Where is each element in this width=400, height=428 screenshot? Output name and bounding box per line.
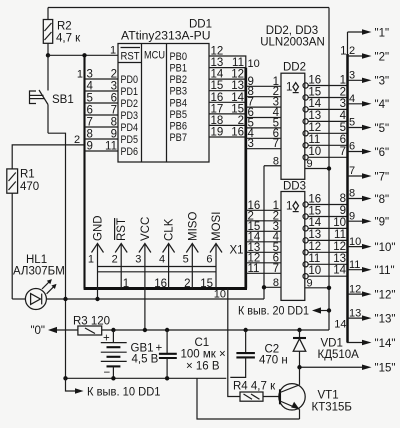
wire PB1 pin13 xyxy=(209,67,246,69)
wire plus supply row y=330 xyxy=(102,329,329,331)
left group bus of DD1 block xyxy=(83,55,85,288)
svg-text:10: 10 xyxy=(308,265,321,277)
svg-text:10: 10 xyxy=(308,146,321,158)
svg-text:6: 6 xyxy=(111,93,117,105)
svg-text:11: 11 xyxy=(334,229,346,241)
wire PB3 pin15 xyxy=(209,90,246,92)
wire VT1 emitter return to minus rail xyxy=(197,378,300,419)
svg-text:11: 11 xyxy=(248,263,260,275)
svg-text:C1: C1 xyxy=(195,337,210,349)
X1 pin 2 RST xyxy=(112,218,129,289)
svg-text:3: 3 xyxy=(135,254,141,266)
right output cable group line xyxy=(347,32,349,55)
svg-text:470: 470 xyxy=(20,181,39,193)
svg-text:2: 2 xyxy=(349,45,355,57)
wire PD6 pin11 xyxy=(85,150,119,152)
svg-text:13: 13 xyxy=(349,307,361,319)
X1 pin 4 CLK xyxy=(159,218,176,288)
node SB1 vertical joins minus rail xyxy=(63,376,67,380)
svg-text:"3": "3" xyxy=(375,76,390,88)
svg-text:"8": "8" xyxy=(375,194,390,206)
svg-text:6: 6 xyxy=(87,105,93,117)
svg-text:14: 14 xyxy=(333,265,346,277)
wire 2: R1 top to left bus xyxy=(12,145,84,169)
output stub 10 xyxy=(348,236,396,254)
cable entry labels wires 8-14 xyxy=(333,193,346,277)
wire to pin 10 DD1 with arrow xyxy=(66,378,161,398)
svg-text:× 16 В: × 16 В xyxy=(186,360,220,372)
svg-text:GND: GND xyxy=(93,215,105,241)
svg-text:100 мк ×: 100 мк × xyxy=(181,349,226,361)
svg-text:1: 1 xyxy=(286,82,292,94)
svg-text:PB7: PB7 xyxy=(170,132,188,144)
svg-text:VT1: VT1 xyxy=(318,390,339,402)
svg-text:PB5: PB5 xyxy=(170,109,188,121)
svg-text:16: 16 xyxy=(308,74,321,86)
svg-text:3: 3 xyxy=(111,81,117,93)
svg-text:13: 13 xyxy=(308,229,321,241)
svg-text:"14": "14" xyxy=(375,338,396,350)
wire X1 link line A xyxy=(98,266,217,268)
svg-text:VCC: VCC xyxy=(140,217,152,241)
wire SB1 to ground rails xyxy=(48,133,66,378)
svg-text:"0": "0" xyxy=(30,325,45,337)
X1 pin 3 VCC xyxy=(135,217,152,330)
svg-text:8: 8 xyxy=(340,193,346,205)
svg-text:6: 6 xyxy=(206,254,212,266)
svg-text:DD3: DD3 xyxy=(283,181,306,193)
svg-text:4,7 к: 4,7 к xyxy=(56,33,81,45)
wire RST net to DD1 pin 1 xyxy=(48,54,118,56)
svg-text:"13": "13" xyxy=(375,313,396,325)
svg-text:"10": "10" xyxy=(375,242,396,254)
svg-text:12: 12 xyxy=(308,241,321,253)
svg-text:2: 2 xyxy=(340,86,346,98)
svg-text:10: 10 xyxy=(333,217,346,229)
ground minus rail xyxy=(66,377,227,379)
svg-text:VD1: VD1 xyxy=(321,338,343,350)
svg-text:14: 14 xyxy=(308,98,321,110)
wire PB2 pin14 xyxy=(209,78,246,80)
X1 pin 6 MOSI xyxy=(206,212,223,289)
wire ULN ground drop to rail xyxy=(263,166,265,299)
node VD1 cathode / collector / wire 15 xyxy=(297,365,301,369)
diode VD1 xyxy=(293,330,359,367)
DD2 output pins 16-10 with bubbles xyxy=(303,74,348,160)
labels PB side wire numbers entering bus xyxy=(231,57,244,138)
svg-text:5: 5 xyxy=(183,254,189,266)
wire "0" output with arrow xyxy=(30,325,77,337)
svg-text:4: 4 xyxy=(87,81,94,93)
svg-text:14: 14 xyxy=(308,217,321,229)
svg-text:К выв. 10 DD1: К выв. 10 DD1 xyxy=(87,387,161,399)
node junction R2/SB1/RST xyxy=(46,53,50,57)
svg-text:"12": "12" xyxy=(375,289,396,301)
svg-text:12: 12 xyxy=(349,283,361,295)
svg-text:6: 6 xyxy=(349,141,355,153)
svg-text:12: 12 xyxy=(231,69,244,81)
node C2 top xyxy=(243,328,247,332)
svg-text:8: 8 xyxy=(273,155,279,167)
svg-text:3: 3 xyxy=(340,98,346,110)
output stub 9 xyxy=(348,210,390,228)
svg-text:3: 3 xyxy=(248,138,254,150)
svg-text:ULN2003AN: ULN2003AN xyxy=(260,37,325,49)
battery GB1 xyxy=(101,330,159,379)
svg-text:SB1: SB1 xyxy=(52,94,74,106)
svg-text:PD1: PD1 xyxy=(121,86,139,98)
output stub 5 xyxy=(348,117,390,135)
output stub 11 xyxy=(348,259,395,277)
svg-text:"9": "9" xyxy=(375,217,390,229)
resistor R4 xyxy=(233,381,280,402)
wire PD5 pin9 xyxy=(85,138,119,140)
svg-text:18: 18 xyxy=(211,115,224,127)
svg-text:PD6: PD6 xyxy=(121,146,139,158)
svg-text:14: 14 xyxy=(211,69,224,81)
svg-text:ATtiny2313A-PU: ATtiny2313A-PU xyxy=(121,31,211,43)
svg-text:2: 2 xyxy=(111,69,117,81)
svg-text:9: 9 xyxy=(111,129,117,141)
svg-text:PD3: PD3 xyxy=(121,110,139,122)
wire PB6 pin18 xyxy=(209,124,246,126)
DD3 input wires from bus with pin numbers xyxy=(246,200,281,275)
svg-text:DD2: DD2 xyxy=(283,62,306,74)
wire LED to ground rail xyxy=(46,298,264,300)
wire to pin 20 DD1 with arrow xyxy=(238,306,331,318)
output stub 4 xyxy=(348,93,390,111)
microcontroller DD1 ATtiny2313A-PU xyxy=(118,19,212,163)
svg-text:КД510А: КД510А xyxy=(318,349,360,361)
DD3 output pins 16-10 with bubbles xyxy=(303,193,348,279)
svg-text:15: 15 xyxy=(231,103,244,115)
node GB1 plus xyxy=(111,328,115,332)
svg-text:11: 11 xyxy=(349,259,360,271)
svg-text:8: 8 xyxy=(87,129,93,141)
svg-text:5: 5 xyxy=(87,93,93,105)
svg-text:5: 5 xyxy=(349,117,355,129)
svg-text:9: 9 xyxy=(307,158,313,170)
svg-text:4: 4 xyxy=(159,254,165,266)
svg-text:DD1: DD1 xyxy=(189,19,212,31)
output stub 8 xyxy=(348,188,390,206)
wire PB5 pin17 xyxy=(209,113,246,115)
svg-text:7: 7 xyxy=(111,105,117,117)
svg-text:1: 1 xyxy=(88,254,94,266)
node VD1 top xyxy=(297,328,301,332)
svg-text:7: 7 xyxy=(273,263,279,275)
svg-text:16: 16 xyxy=(231,127,244,139)
pushbutton SB1 xyxy=(30,55,74,133)
svg-text:2: 2 xyxy=(112,254,118,266)
svg-text:7: 7 xyxy=(349,165,355,177)
driver DD3 ULN2003AN xyxy=(281,181,306,301)
svg-text:"2": "2" xyxy=(375,51,390,63)
svg-text:1: 1 xyxy=(340,46,346,58)
svg-text:PB2: PB2 xyxy=(170,74,188,86)
svg-text:PB3: PB3 xyxy=(170,86,188,98)
svg-text:DD2, DD3: DD2, DD3 xyxy=(266,25,318,37)
svg-text:11: 11 xyxy=(105,141,117,153)
driver DD2 ULN2003AN xyxy=(281,62,306,180)
svg-text:19: 19 xyxy=(211,127,224,139)
svg-text:1: 1 xyxy=(340,74,346,86)
DD2 pin 9 common wire to VCC line xyxy=(305,158,331,171)
resistor R2 xyxy=(43,8,81,56)
svg-text:R1: R1 xyxy=(20,169,35,181)
LED HL1 xyxy=(12,254,65,310)
svg-text:MISO: MISO xyxy=(187,212,199,241)
svg-text:3: 3 xyxy=(349,70,355,82)
svg-text:11: 11 xyxy=(308,134,320,146)
X1 pin 5 MISO xyxy=(183,212,200,289)
labels X1 wire numbers into bus xyxy=(123,278,213,290)
svg-text:10: 10 xyxy=(248,58,260,70)
output stub 3 xyxy=(348,70,390,88)
labels PB side pin numbers 12-19 xyxy=(211,46,224,139)
svg-text:15: 15 xyxy=(308,205,321,217)
svg-text:10: 10 xyxy=(214,289,226,301)
svg-text:9: 9 xyxy=(349,210,355,222)
svg-text:4,5 В: 4,5 В xyxy=(132,354,159,366)
svg-text:"4": "4" xyxy=(375,99,390,111)
svg-text:RST: RST xyxy=(121,51,140,63)
cable entry labels wires 1-7 xyxy=(340,46,347,159)
node C1 top xyxy=(165,328,169,332)
svg-text:MCU: MCU xyxy=(144,50,165,62)
svg-text:CLK: CLK xyxy=(164,218,176,241)
svg-text:PB0: PB0 xyxy=(170,51,188,63)
svg-text:PD0: PD0 xyxy=(121,74,139,86)
svg-text:11: 11 xyxy=(308,253,320,265)
svg-text:+: + xyxy=(156,343,163,355)
svg-text:R2: R2 xyxy=(57,21,72,33)
node GB1 minus xyxy=(111,376,115,380)
DD2 pin 8 ground wire xyxy=(264,155,281,167)
node VCC drop joins row xyxy=(143,328,147,332)
svg-text:HL1: HL1 xyxy=(26,254,47,266)
svg-text:12: 12 xyxy=(211,46,224,58)
svg-text:15: 15 xyxy=(211,80,224,92)
wire PB7 pin19 xyxy=(209,136,246,138)
svg-text:15: 15 xyxy=(308,86,321,98)
svg-text:PB6: PB6 xyxy=(170,120,188,132)
capacitor C2 xyxy=(230,330,287,377)
svg-text:1: 1 xyxy=(110,45,116,57)
wire PD0 pin2 xyxy=(85,78,119,80)
svg-text:"1": "1" xyxy=(375,27,390,39)
svg-text:"6": "6" xyxy=(375,147,390,159)
svg-text:7: 7 xyxy=(340,146,346,158)
svg-text:X1: X1 xyxy=(230,245,244,257)
wire VCC vertical line x=329 xyxy=(328,8,330,331)
svg-text:13: 13 xyxy=(308,110,321,122)
svg-text:PB1: PB1 xyxy=(170,63,188,75)
wire 10 from PB0 pin 12 over bus corner xyxy=(209,56,246,68)
svg-text:8: 8 xyxy=(273,277,279,289)
svg-text:11: 11 xyxy=(232,57,244,69)
svg-text:9: 9 xyxy=(307,277,313,289)
svg-text:16: 16 xyxy=(308,193,321,205)
wire top supply rail from R2 to VCC line xyxy=(48,7,329,9)
wire PB4 pin16 xyxy=(209,101,246,103)
labels PD side wire numbers 3-9 xyxy=(87,69,94,153)
wire PD4 pin8 xyxy=(85,126,119,128)
svg-text:16: 16 xyxy=(154,278,167,290)
svg-text:1: 1 xyxy=(286,201,292,213)
DD3 pin 8 ground wire xyxy=(262,277,281,290)
svg-text:4: 4 xyxy=(340,110,347,122)
svg-text:13: 13 xyxy=(231,80,244,92)
svg-text:PD4: PD4 xyxy=(121,122,139,134)
DD3 pin 9 common wire to VCC line xyxy=(305,277,331,290)
svg-text:470 н: 470 н xyxy=(259,355,288,367)
svg-text:10: 10 xyxy=(349,236,361,248)
svg-text:2: 2 xyxy=(184,278,190,290)
X1 pin 1 GND xyxy=(88,215,105,299)
svg-text:АЛ307БМ: АЛ307БМ xyxy=(13,266,65,278)
bottom edge group bus of DD1 block xyxy=(84,287,247,290)
svg-text:PD5: PD5 xyxy=(121,134,139,146)
wire 10 drop to R4 xyxy=(228,289,240,397)
svg-text:9: 9 xyxy=(87,141,93,153)
svg-text:3: 3 xyxy=(87,69,93,81)
svg-text:R4 4,7 к: R4 4,7 к xyxy=(233,381,276,393)
right edge group bus of DD1 block xyxy=(244,68,247,289)
output stub 7 xyxy=(348,165,390,183)
svg-text:16: 16 xyxy=(211,92,224,104)
resistor R1 xyxy=(7,169,39,300)
svg-text:PB4: PB4 xyxy=(170,97,188,109)
wire PD3 pin7 xyxy=(85,114,119,116)
svg-text:RST: RST xyxy=(116,218,128,241)
svg-text:1: 1 xyxy=(123,278,129,290)
svg-text:5: 5 xyxy=(340,122,346,134)
wire PD2 pin6 xyxy=(85,102,119,104)
svg-text:MOSI: MOSI xyxy=(211,212,223,241)
output stub 6 xyxy=(348,141,390,159)
svg-text:17: 17 xyxy=(211,103,224,115)
svg-text:−: − xyxy=(104,367,111,379)
node SB1 vertical joins ground rail xyxy=(63,297,67,301)
wire X1 link line B xyxy=(98,271,217,273)
svg-text:К выв. 20 DD1: К выв. 20 DD1 xyxy=(238,306,309,318)
svg-text:PD2: PD2 xyxy=(121,98,139,110)
node C1 minus xyxy=(165,376,169,380)
svg-text:14: 14 xyxy=(334,319,346,331)
node wire1 enters left bus xyxy=(82,53,86,57)
svg-text:4: 4 xyxy=(349,93,355,105)
svg-text:6: 6 xyxy=(340,134,346,146)
svg-text:1: 1 xyxy=(77,69,83,81)
svg-text:"15": "15" xyxy=(375,363,396,375)
output stub 1 xyxy=(348,27,390,39)
svg-text:2: 2 xyxy=(74,134,80,146)
svg-text:7: 7 xyxy=(273,138,279,150)
output stub 13 xyxy=(348,307,396,325)
svg-text:"5": "5" xyxy=(375,123,390,135)
svg-text:15: 15 xyxy=(200,278,213,290)
svg-text:12: 12 xyxy=(308,122,321,134)
svg-text:"7": "7" xyxy=(375,171,390,183)
connector X1 programming header xyxy=(88,212,244,330)
resistor R3 xyxy=(73,316,110,336)
svg-text:14: 14 xyxy=(231,92,244,104)
svg-text:8: 8 xyxy=(349,188,355,200)
capacitor C1 electrolytic xyxy=(156,330,226,378)
svg-text:13: 13 xyxy=(211,57,224,69)
svg-text:2: 2 xyxy=(238,115,244,127)
wire PD1 pin3 xyxy=(85,90,119,92)
svg-text:12: 12 xyxy=(333,241,346,253)
DD2 input wires from bus with pin numbers xyxy=(246,76,281,150)
output stub 12 xyxy=(348,283,396,301)
label DD2, DD3 ULN2003AN title xyxy=(260,25,325,49)
svg-text:"11": "11" xyxy=(375,265,395,277)
node X1 GND joins ground rail xyxy=(95,297,99,301)
output wire 15 from VT1 collector node xyxy=(300,363,396,375)
output stub 14 at cable bend xyxy=(334,319,395,350)
transistor VT1 KT315B xyxy=(279,367,352,419)
svg-text:7: 7 xyxy=(87,117,93,129)
svg-text:8: 8 xyxy=(111,117,117,129)
svg-text:13: 13 xyxy=(333,253,346,265)
svg-text:КТ315Б: КТ315Б xyxy=(312,402,352,414)
output stub 2 xyxy=(348,45,390,63)
labels PD side pin numbers xyxy=(105,69,117,153)
svg-text:9: 9 xyxy=(340,205,346,217)
